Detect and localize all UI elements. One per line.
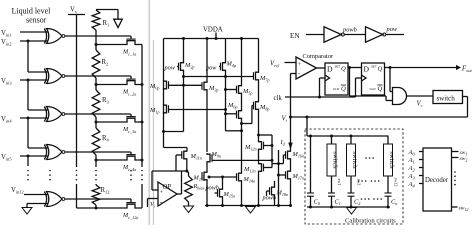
wire Vi into cap bank bbox=[306, 117, 308, 136]
svg-text:sw12: sw12 bbox=[459, 206, 469, 213]
wire M16n gate bbox=[283, 154, 285, 156]
XOR gate G3 bbox=[47, 107, 63, 122]
ellipsis switches bbox=[365, 157, 367, 159]
decoder U5 bbox=[423, 148, 452, 211]
wire M9n gate bias line bbox=[212, 159, 272, 161]
rail junctions bbox=[182, 37, 185, 40]
wire cascode gate column bbox=[278, 150, 280, 206]
transistor M8p bbox=[256, 101, 259, 111]
svg-text:pow: pow bbox=[164, 65, 176, 72]
switch S12 + capacitor Cn bbox=[387, 136, 389, 144]
output sw1 bbox=[452, 151, 459, 153]
wire Vref to comparator bbox=[285, 62, 297, 64]
wire VDDA rail bbox=[164, 38, 259, 40]
svg-text:D: D bbox=[327, 65, 333, 74]
wire FF2 Q out bbox=[385, 67, 457, 69]
continuation dots gate tick column bbox=[130, 170, 132, 172]
continuation dots ladder column bbox=[95, 170, 97, 172]
wire M11n gate bbox=[176, 154, 182, 156]
wire Vin3 down to G3 bbox=[27, 80, 29, 110]
wire M4p column corner bbox=[226, 130, 242, 132]
wire column M5p bbox=[241, 39, 243, 85]
svg-text:VDDA: VDDA bbox=[203, 27, 223, 34]
node ladder tap 2 bbox=[95, 83, 98, 86]
calibration dashed box bbox=[305, 129, 403, 224]
wire clk to FF1 bbox=[319, 78, 321, 97]
wire FF1 Q down and under FF2 to AND bbox=[349, 68, 351, 97]
continuation dots Vs column bbox=[76, 170, 78, 172]
wire switch to Vi bbox=[463, 96, 468, 98]
transistor M2p bbox=[181, 62, 184, 72]
transistor M3p bbox=[204, 81, 207, 91]
wire Vin2 down to G2 bbox=[27, 41, 29, 72]
svg-text:SET: SET bbox=[335, 65, 341, 69]
svg-text:sw2: sw2 bbox=[460, 156, 468, 163]
wire column M4p bbox=[225, 39, 227, 63]
svg-text:switch: switch bbox=[351, 151, 358, 169]
transistor M0p bbox=[164, 80, 167, 90]
wire comparator minus bbox=[291, 73, 297, 75]
continuation dots collector column bbox=[141, 170, 143, 172]
transistor M9n bbox=[207, 153, 210, 163]
svg-text:Liquid level: Liquid level bbox=[12, 7, 52, 16]
wire M6p gate bbox=[226, 113, 237, 115]
wire M14a gate row bbox=[209, 176, 237, 178]
resistor R2 bbox=[92, 50, 100, 78]
wire AND out to switch bbox=[407, 95, 434, 97]
wire sense collector vertical bbox=[141, 45, 143, 168]
wire Vin4 to G3 bbox=[20, 117, 48, 119]
wire M8p gate bbox=[252, 105, 254, 107]
transistor M15n bbox=[220, 188, 223, 198]
wire Vin4 down to G4 bbox=[27, 118, 29, 148]
svg-text:powb: powb bbox=[342, 27, 357, 34]
svg-text:Calibration circuits: Calibration circuits bbox=[345, 218, 396, 225]
output sw12 bbox=[452, 206, 458, 208]
wire M12n gate bbox=[264, 145, 273, 147]
wire pow bbox=[386, 34, 404, 36]
svg-text:sw1: sw1 bbox=[337, 179, 342, 186]
wire pow-mirror gate rail bbox=[184, 76, 254, 78]
ellipsis caps bbox=[361, 198, 363, 200]
output Fout bbox=[456, 65, 461, 70]
svg-text:sw2: sw2 bbox=[357, 179, 362, 186]
transistor M6p bbox=[239, 110, 242, 120]
output sw2 bbox=[452, 157, 459, 159]
wire M8p source down bbox=[258, 111, 260, 141]
wire M2p drain to M1p drain jog bbox=[164, 131, 184, 133]
comparator U3 bbox=[296, 57, 317, 79]
wire M17n gate bbox=[279, 174, 286, 176]
wire Vs vertical bbox=[76, 15, 78, 168]
node ladder tap 1 bbox=[95, 43, 98, 46]
transistor Mc12a bbox=[96, 204, 142, 208]
wire OP- input bbox=[148, 198, 159, 200]
transistor M13n bbox=[259, 163, 262, 173]
svg-text:CLR: CLR bbox=[370, 87, 377, 91]
transistor M13b bbox=[204, 171, 207, 181]
svg-text:switch: switch bbox=[437, 95, 456, 103]
svg-text:powb: powb bbox=[262, 195, 276, 202]
svg-text:clk: clk bbox=[274, 95, 283, 102]
flip-flop FF2 bbox=[362, 63, 385, 95]
wire powb bbox=[344, 34, 365, 36]
svg-text:OP: OP bbox=[163, 184, 172, 191]
switch S1 + capacitor C1 bbox=[331, 136, 333, 144]
wire Vs vertical lower bbox=[76, 184, 78, 208]
svg-text:D: D bbox=[364, 65, 370, 74]
wire Vi bus bbox=[291, 116, 468, 118]
wire M15n column bbox=[222, 177, 224, 188]
transistor M4p bbox=[223, 62, 226, 72]
inverter U2 bbox=[366, 27, 383, 42]
svg-text:SET: SET bbox=[371, 65, 377, 69]
wire feedback to M11n source bbox=[152, 170, 187, 172]
svg-text:Decoder: Decoder bbox=[425, 177, 449, 184]
wire Vin1 to G1 bbox=[20, 31, 48, 33]
transistor Mc1a bbox=[96, 41, 142, 45]
node collector taps bbox=[141, 83, 144, 86]
wire column M7p/M8p bbox=[258, 39, 260, 72]
svg-text:CLR: CLR bbox=[333, 87, 340, 91]
and gate U4 bbox=[393, 88, 407, 105]
resistor Rbias bbox=[187, 171, 189, 173]
wire Vin2 to G1 bbox=[20, 40, 48, 42]
wire Q down to AND bbox=[389, 68, 391, 92]
node ladder tap 12 bbox=[95, 207, 98, 210]
scan artifact gray vertical lines bbox=[148, 0, 150, 225]
current arrow (open) bbox=[114, 19, 123, 27]
op-amp U-OP bbox=[158, 182, 177, 206]
wire sense collector lower bbox=[141, 184, 143, 208]
wire OP output bbox=[177, 193, 182, 195]
wire M13n gate bbox=[264, 167, 273, 169]
node ladder tap 4 bbox=[95, 159, 98, 162]
Vs terminal bar bbox=[68, 14, 85, 16]
wire branch C0 bbox=[310, 136, 312, 193]
wire M12n/M13n column bbox=[258, 151, 260, 163]
ground cap bank bbox=[347, 208, 357, 215]
switch S2 + capacitor C2 bbox=[350, 136, 352, 144]
wire G2 output bbox=[65, 75, 131, 77]
transistor M7p bbox=[256, 71, 259, 81]
transistor M16n bbox=[288, 150, 291, 160]
ground analog core bbox=[246, 207, 256, 214]
wire column M3p bbox=[206, 39, 208, 82]
continuation dots gate output column bbox=[49, 170, 51, 172]
resistor R1 bbox=[92, 10, 100, 30]
XOR gate G1 bbox=[47, 29, 63, 44]
wire G3 output bbox=[65, 113, 131, 115]
svg-text:switch: switch bbox=[332, 151, 339, 169]
wire M6p source column bbox=[241, 119, 243, 172]
continuation dots input column bbox=[27, 170, 29, 172]
svg-text:EN: EN bbox=[290, 32, 300, 40]
wire Vin5 down (continues) bbox=[27, 156, 29, 166]
resistor R4 bbox=[92, 128, 100, 155]
wire G5 output bbox=[65, 198, 131, 200]
wire Vin12 to G5 bbox=[24, 194, 48, 196]
transistor M5p bbox=[239, 85, 242, 95]
svg-text:pow: pow bbox=[386, 26, 398, 33]
VDDA tick bbox=[215, 33, 217, 39]
ground at G5 input bbox=[22, 208, 32, 215]
transistor M12n bbox=[259, 141, 262, 151]
svg-text:sw12: sw12 bbox=[394, 178, 399, 187]
wire analog ground rail bbox=[205, 205, 291, 207]
wire M18n column bbox=[274, 181, 276, 186]
svg-text:powb: powb bbox=[205, 185, 219, 192]
transistor M1p bbox=[164, 104, 167, 114]
wire EN to inverter bbox=[306, 34, 324, 36]
wire M18n gate bbox=[267, 190, 270, 192]
flip-flop FF1 bbox=[325, 63, 348, 95]
transistor Mc2a bbox=[96, 81, 142, 85]
transistor Mc3a bbox=[96, 118, 142, 122]
resistor R3 bbox=[92, 90, 100, 117]
switch box bbox=[433, 91, 463, 104]
wire FF1 Q to FF2 D bbox=[348, 67, 362, 69]
svg-text:Q: Q bbox=[341, 86, 346, 93]
wire G1 output bbox=[65, 35, 131, 37]
wire M0p gate to M3p gate bbox=[169, 84, 203, 86]
wire cap bank top bus bbox=[307, 135, 389, 137]
svg-text:Q: Q bbox=[378, 66, 383, 73]
wire M5p gate bbox=[226, 89, 237, 91]
wire opamp output up bbox=[181, 171, 183, 194]
transistor M17n bbox=[288, 170, 291, 180]
capacitor C0 bbox=[307, 192, 314, 194]
ellipsis outputs bbox=[454, 171, 456, 173]
ellipsis sw labels bbox=[358, 180, 360, 182]
wire M13b source to rail bbox=[206, 181, 208, 206]
svg-text:Q: Q bbox=[378, 86, 383, 93]
wire M11n source node bbox=[186, 160, 188, 172]
transistor M14a bbox=[239, 172, 242, 182]
XOR gate G5 bbox=[47, 192, 63, 207]
svg-text:sensor: sensor bbox=[26, 16, 47, 25]
wire M6p source to M8p gate bbox=[242, 123, 252, 125]
wire M1p gate bbox=[169, 109, 226, 111]
resistor R12 bbox=[95, 184, 97, 185]
wire column M0p/M1p bbox=[163, 39, 165, 148]
svg-text:Q: Q bbox=[341, 66, 346, 73]
svg-text:Comparator: Comparator bbox=[303, 53, 334, 60]
wire cap bank bottom bus bbox=[307, 206, 390, 208]
XOR gate G4 bbox=[47, 145, 63, 160]
wire comparator output to DFF1 bbox=[317, 67, 326, 69]
wire mirror bottom row bbox=[164, 147, 188, 149]
wire M9n to M13b bbox=[206, 163, 208, 171]
ground at Rbias bbox=[184, 206, 194, 213]
wire G5 lower input to ground bbox=[27, 203, 48, 205]
wire column M2p bbox=[183, 39, 185, 63]
wire Vin5 to G4 bbox=[20, 155, 48, 157]
wire clk to FF2 bbox=[355, 78, 357, 97]
wire M12n diode vertical bbox=[271, 135, 273, 168]
wire OP+ input bbox=[152, 189, 158, 191]
wire M14a source bbox=[241, 182, 243, 206]
wire R1 top to current arrow bbox=[96, 9, 118, 11]
inverter U1 bbox=[324, 27, 341, 42]
transistor M11n bbox=[184, 150, 187, 160]
wire M8p source to M12n diode bbox=[259, 134, 273, 136]
transistor Mc4a bbox=[96, 156, 142, 160]
wire Vin3 to G2 bbox=[20, 79, 48, 81]
XOR gate G2 bbox=[47, 69, 63, 84]
node ladder tap 3 bbox=[95, 121, 98, 124]
wire M16n-M17n column bbox=[290, 160, 292, 170]
wire G4 output bbox=[65, 151, 131, 153]
transistor M18n bbox=[272, 186, 275, 196]
svg-text:switch: switch bbox=[388, 151, 395, 169]
